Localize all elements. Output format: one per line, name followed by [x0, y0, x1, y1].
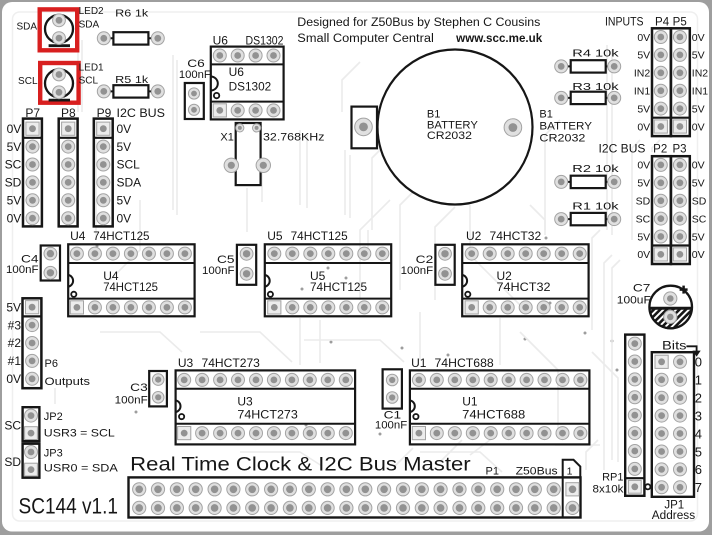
B1 outside label	[539, 109, 592, 145]
jumper JP2	[23, 407, 40, 441]
capacitor C6 100nF	[179, 58, 211, 119]
RP1 pin1 dot	[645, 484, 650, 489]
P7 P8 P9 header labels	[25, 106, 165, 120]
svg-text:5V: 5V	[692, 178, 705, 190]
svg-text:0V: 0V	[637, 32, 650, 44]
IC U6 DS1302	[211, 47, 284, 120]
svg-text:IN2: IN2	[634, 68, 651, 80]
wire	[344, 150, 346, 215]
svg-text:C7: C7	[633, 282, 651, 294]
wire	[95, 120, 97, 238]
capacitor C3 100nF	[115, 371, 167, 406]
wire	[652, 140, 660, 152]
wire	[592, 352, 618, 462]
svg-text:I2C BUS: I2C BUS	[599, 144, 646, 156]
svg-text:SC: SC	[5, 158, 22, 172]
svg-text:Small Computer Central: Small Computer Central	[297, 33, 434, 45]
svg-text:Z50Bus: Z50Bus	[516, 466, 559, 478]
svg-text:7: 7	[695, 480, 702, 495]
wire	[342, 62, 360, 112]
svg-text:100nF: 100nF	[375, 419, 408, 431]
capacitor C1 100nF	[375, 369, 408, 431]
wire	[555, 444, 600, 446]
wire	[240, 142, 262, 202]
wire	[360, 200, 390, 300]
svg-text:#1: #1	[8, 354, 22, 368]
svg-text:U6: U6	[229, 65, 245, 79]
svg-text:0V: 0V	[692, 32, 705, 44]
JP1 text	[652, 500, 696, 523]
wire	[54, 388, 56, 404]
svg-text:U2: U2	[466, 229, 482, 243]
svg-text:74HCT688: 74HCT688	[462, 408, 525, 422]
svg-text:DS1302: DS1302	[229, 79, 272, 93]
wire	[110, 200, 140, 280]
svg-text:74HCT125: 74HCT125	[93, 229, 150, 243]
svg-text:INPUTS: INPUTS	[605, 16, 644, 28]
wire	[499, 318, 501, 365]
wire	[349, 155, 351, 218]
connector P8	[59, 119, 78, 227]
svg-text:R1 10k: R1 10k	[572, 201, 619, 213]
svg-text:USR0 = SDA: USR0 = SDA	[44, 463, 119, 475]
U1 labels	[411, 356, 525, 422]
wire	[304, 340, 404, 362]
svg-text:CR2032: CR2032	[539, 132, 585, 144]
wire	[520, 332, 558, 430]
svg-text:5: 5	[695, 444, 702, 459]
svg-text:74HCT125: 74HCT125	[291, 229, 348, 243]
svg-text:U1: U1	[462, 395, 478, 409]
connector P2	[652, 156, 671, 264]
svg-text:5V: 5V	[637, 50, 650, 62]
svg-text:5V: 5V	[117, 140, 132, 154]
node labels left of P6	[6, 300, 21, 386]
wire	[77, 40, 79, 112]
svg-text:P3: P3	[672, 144, 686, 156]
svg-text:P2: P2	[653, 144, 667, 156]
svg-text:P8: P8	[61, 106, 76, 120]
svg-text:Outputs: Outputs	[45, 376, 91, 388]
svg-text:U3: U3	[237, 395, 253, 409]
connector P7	[23, 119, 42, 227]
svg-text:R6 1k: R6 1k	[115, 7, 149, 19]
wire	[612, 260, 620, 460]
svg-text:#2: #2	[8, 336, 22, 350]
P1 header labels	[486, 466, 559, 478]
svg-text:74HCT32: 74HCT32	[497, 280, 551, 294]
svg-text:100nF: 100nF	[202, 265, 235, 277]
crystal X1 32.768KHz	[220, 123, 324, 185]
wire	[395, 448, 413, 466]
svg-text:USR3 = SCL: USR3 = SCL	[44, 428, 115, 440]
svg-text:0V: 0V	[6, 372, 21, 386]
wire	[319, 320, 321, 363]
svg-text:0V: 0V	[692, 249, 705, 261]
svg-text:Designed for Z50Bus by Stephen: Designed for Z50Bus by Stephen C Cousins	[297, 17, 540, 29]
svg-text:SD: SD	[636, 196, 651, 208]
resistor R2 10k	[555, 163, 621, 189]
svg-text:100uF: 100uF	[617, 295, 651, 307]
U6 labels	[213, 34, 284, 94]
svg-text:U3: U3	[178, 356, 194, 370]
svg-text:R4 10k: R4 10k	[572, 48, 619, 60]
svg-text:LED1: LED1	[79, 62, 104, 73]
svg-text:8x10k: 8x10k	[593, 483, 625, 495]
RP1 labels	[593, 472, 625, 496]
wire	[299, 318, 301, 365]
svg-text:Bits: Bits	[662, 341, 687, 353]
capacitor C7 100uF	[617, 282, 712, 330]
svg-text:IN2: IN2	[692, 68, 709, 80]
svg-text:Address: Address	[652, 510, 696, 522]
svg-text:5V: 5V	[117, 194, 132, 208]
svg-text:74HCT125: 74HCT125	[103, 280, 158, 294]
svg-text:JP2: JP2	[44, 411, 63, 423]
P1 pin 1 marker	[563, 460, 581, 478]
svg-text:DS1302: DS1302	[246, 34, 284, 48]
svg-text:RP1: RP1	[602, 472, 623, 484]
JP1 bit number labels	[695, 355, 702, 496]
svg-text:5V: 5V	[7, 194, 22, 208]
wire	[419, 312, 421, 360]
resistor R6 1k	[97, 7, 164, 44]
wire	[306, 135, 308, 208]
capacitor C5 100nF	[202, 245, 256, 285]
IC U1 74HCT688	[410, 370, 590, 444]
LED D2 highlight box	[40, 9, 77, 50]
svg-text:32.768KHz: 32.768KHz	[263, 132, 325, 144]
svg-text:Real Time Clock & I2C Bus Mast: Real Time Clock & I2C Bus Master	[130, 454, 471, 476]
svg-text:74HCT125: 74HCT125	[310, 280, 367, 294]
svg-text:SD: SD	[5, 176, 22, 190]
wire	[470, 205, 520, 305]
svg-text:U4: U4	[70, 229, 86, 243]
LED1	[45, 68, 73, 100]
svg-text:P4: P4	[655, 16, 670, 28]
connector P5	[671, 28, 690, 136]
IC U5 74HCT125	[265, 244, 391, 316]
svg-text:IN1: IN1	[634, 86, 651, 98]
svg-text:0V: 0V	[637, 121, 650, 133]
svg-text:IN1: IN1	[692, 86, 709, 98]
wire	[632, 140, 640, 240]
svg-text:LED2: LED2	[79, 6, 104, 17]
wire	[606, 45, 608, 230]
I2C BUS header	[599, 144, 687, 156]
wire	[435, 207, 455, 300]
svg-text:BATTERY: BATTERY	[539, 121, 592, 133]
jumper JP3	[23, 444, 40, 478]
wire	[299, 130, 301, 205]
resistor R5 1k	[97, 74, 164, 98]
wire	[246, 188, 248, 232]
svg-text:www.scc.me.uk: www.scc.me.uk	[455, 33, 543, 45]
svg-text:SD: SD	[4, 455, 21, 469]
capacitor C2 100nF	[401, 245, 455, 285]
svg-text:0V: 0V	[117, 122, 132, 136]
svg-text:2: 2	[695, 390, 702, 405]
svg-text:B1: B1	[539, 109, 552, 121]
svg-text:0V: 0V	[637, 160, 650, 172]
wire	[100, 332, 182, 352]
svg-text:5V: 5V	[692, 231, 705, 243]
svg-text:R5 1k: R5 1k	[115, 74, 149, 86]
wire	[200, 332, 292, 362]
svg-text:5V: 5V	[637, 178, 650, 190]
IC U4 74HCT125	[68, 244, 194, 316]
svg-text:1: 1	[567, 466, 573, 478]
svg-text:5V: 5V	[6, 300, 21, 314]
resistor R3 10k	[555, 81, 621, 105]
svg-text:JP3: JP3	[44, 448, 63, 460]
svg-text:0V: 0V	[637, 249, 650, 261]
svg-text:5V: 5V	[7, 140, 22, 154]
connector P9	[94, 119, 113, 227]
svg-text:SC: SC	[4, 418, 21, 432]
svg-text:1: 1	[695, 373, 702, 388]
svg-text:5V: 5V	[692, 50, 705, 62]
svg-text:SDA: SDA	[117, 176, 142, 190]
wire	[372, 150, 380, 230]
svg-text:CR2032: CR2032	[427, 130, 472, 142]
wire	[530, 205, 545, 235]
IC U2 74HCT32	[462, 244, 588, 316]
wire	[172, 55, 174, 210]
svg-text:SC144 v1.1: SC144 v1.1	[19, 494, 119, 519]
JP2 labels	[4, 411, 114, 439]
wire	[470, 440, 490, 455]
resistor R4 10k	[555, 48, 621, 73]
connector P4	[652, 28, 671, 136]
svg-text:R2 10k: R2 10k	[572, 163, 619, 175]
wire	[400, 185, 420, 290]
svg-text:0V: 0V	[692, 160, 705, 172]
svg-text:SCL: SCL	[79, 76, 99, 87]
P6 text	[45, 358, 91, 388]
wire	[176, 60, 178, 215]
wire	[592, 230, 600, 330]
svg-text:74HCT273: 74HCT273	[237, 408, 298, 422]
node labels right of P9	[117, 122, 142, 226]
U5 labels	[267, 229, 367, 294]
svg-text:#3: #3	[8, 318, 22, 332]
capacitor C4 100nF	[6, 246, 60, 281]
wire	[367, 230, 369, 260]
svg-text:X1: X1	[220, 132, 233, 144]
svg-text:SCL: SCL	[18, 76, 38, 87]
INPUTS header	[605, 16, 687, 28]
svg-text:0V: 0V	[7, 122, 22, 136]
svg-text:74HCT273: 74HCT273	[202, 356, 261, 370]
svg-text:3: 3	[695, 408, 702, 423]
svg-text:0V: 0V	[692, 121, 705, 133]
node labels left of P4	[634, 32, 651, 134]
node labels left of P7	[5, 122, 22, 226]
JP3 labels	[4, 448, 118, 475]
svg-text:P7: P7	[25, 106, 40, 120]
svg-text:P6: P6	[45, 358, 58, 370]
svg-text:100nF: 100nF	[6, 264, 39, 276]
svg-text:5V: 5V	[637, 103, 650, 115]
svg-text:0: 0	[695, 355, 702, 370]
node labels left of P2	[636, 160, 651, 262]
IC U3 74HCT273	[176, 370, 356, 444]
LED2	[45, 14, 73, 46]
wire	[440, 440, 462, 462]
svg-text:SC: SC	[636, 213, 651, 225]
node labels right of P5	[692, 32, 709, 134]
node labels right of P3	[692, 160, 707, 262]
svg-text:74HCT688: 74HCT688	[435, 356, 495, 370]
U3 labels	[178, 356, 298, 422]
svg-text:SCL: SCL	[117, 158, 141, 172]
U4 labels	[70, 229, 158, 294]
svg-text:I2C BUS: I2C BUS	[117, 106, 166, 120]
svg-text:C3: C3	[130, 382, 148, 394]
connector P6 Outputs	[23, 298, 42, 388]
svg-text:U6: U6	[213, 34, 229, 48]
battery B1 CR2032	[352, 50, 533, 205]
svg-text:6: 6	[695, 462, 702, 477]
svg-text:U5: U5	[267, 229, 283, 243]
svg-text:P5: P5	[673, 16, 687, 28]
svg-text:R3 10k: R3 10k	[572, 81, 619, 93]
resistor R1 10k	[555, 201, 621, 226]
wire	[604, 255, 612, 470]
wire	[611, 50, 613, 235]
svg-text:4: 4	[695, 426, 702, 441]
svg-text:0V: 0V	[117, 211, 132, 225]
svg-text:U1: U1	[411, 356, 427, 370]
wire	[420, 452, 502, 472]
svg-text:100nF: 100nF	[179, 69, 211, 81]
svg-text:SC: SC	[692, 213, 707, 225]
svg-text:SDA: SDA	[16, 22, 37, 33]
resistor network RP1 8x10k	[625, 335, 644, 496]
wire	[586, 440, 598, 470]
Bits label and arrow	[662, 341, 701, 357]
svg-text:74HCT32: 74HCT32	[490, 229, 542, 243]
wire	[81, 40, 83, 112]
svg-text:SDA: SDA	[79, 20, 100, 31]
connector JP1 Address	[652, 352, 694, 497]
svg-text:SD: SD	[692, 196, 707, 208]
svg-text:5V: 5V	[637, 231, 650, 243]
wire	[545, 120, 560, 230]
connector P1 Z50Bus	[129, 477, 581, 517]
LED D1 highlight box	[40, 63, 78, 103]
U2 labels	[466, 229, 551, 294]
svg-text:0V: 0V	[7, 211, 22, 225]
svg-text:100nF: 100nF	[115, 394, 148, 406]
svg-text:5V: 5V	[692, 103, 705, 115]
svg-text:P1: P1	[486, 466, 499, 478]
connector P3	[671, 156, 690, 264]
wire	[240, 452, 322, 466]
svg-text:100nF: 100nF	[401, 265, 434, 277]
svg-text:P9: P9	[97, 106, 112, 120]
LED1 labels	[18, 62, 104, 87]
LED2 labels	[16, 6, 104, 33]
